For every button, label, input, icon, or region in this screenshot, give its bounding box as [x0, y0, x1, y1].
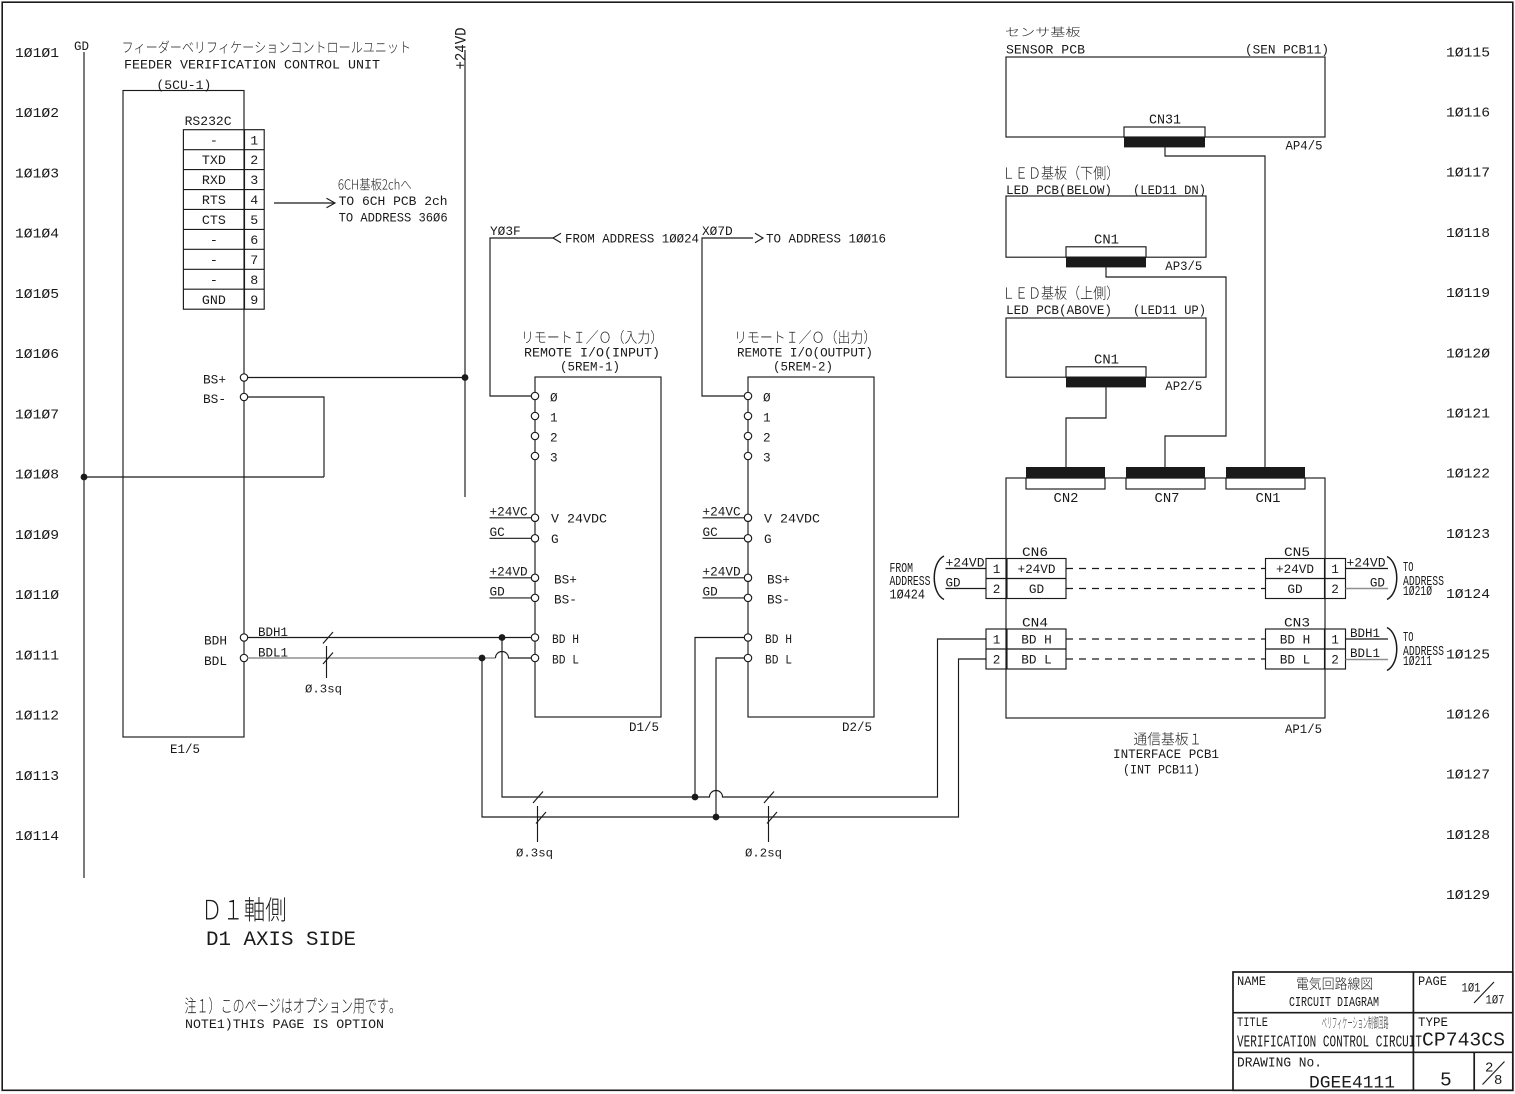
svg-text:1Ø424: 1Ø424	[890, 588, 926, 604]
rev fraction slash	[1483, 1062, 1505, 1085]
svg-text:(SEN PCB11): (SEN PCB11)	[1245, 43, 1329, 58]
junction REM2 BDH / bus	[692, 794, 699, 801]
svg-text:BS+: BS+	[554, 573, 577, 588]
block (5REM-1)	[535, 377, 661, 717]
svg-text:RXD: RXD	[202, 173, 226, 188]
svg-text:-: -	[210, 133, 218, 148]
svg-text:2: 2	[1331, 582, 1339, 597]
svg-text:Ø: Ø	[550, 390, 558, 405]
svg-text:1Ø1Ø9: 1Ø1Ø9	[15, 528, 59, 544]
svg-text:-: -	[210, 273, 218, 288]
connector CN1 housing (AP2)	[1066, 367, 1146, 377]
svg-text:1Ø122: 1Ø122	[1446, 467, 1490, 483]
junction BDH1	[499, 634, 506, 641]
svg-text:1Ø125: 1Ø125	[1446, 647, 1490, 663]
svg-text:+24VD: +24VD	[453, 28, 471, 70]
svg-text:1Ø121: 1Ø121	[1446, 407, 1490, 423]
wire BDL1 gray segment	[247, 657, 495, 659]
junction REM2 BDL / bus	[713, 814, 720, 821]
svg-text:2: 2	[763, 430, 771, 445]
svg-text:CN31: CN31	[1149, 113, 1181, 129]
svg-text:SENSOR PCB: SENSOR PCB	[1006, 43, 1085, 58]
block interface PCB AP1	[1006, 478, 1325, 718]
wire +24VD vertical rail	[464, 50, 466, 497]
svg-text:TITLE: TITLE	[1237, 1016, 1268, 1030]
svg-text:7: 7	[250, 253, 258, 268]
svg-text:+24VD: +24VD	[1276, 562, 1314, 577]
wire BS- to GD rail	[84, 476, 324, 478]
wire Y03F to REM1 pin0	[490, 238, 553, 396]
label interface PCB (JP)	[1134, 732, 1199, 745]
svg-text:D1 AXIS SIDE: D1 AXIS SIDE	[206, 929, 356, 952]
connector CN6 pin table	[986, 559, 1066, 599]
svg-text:1Ø111: 1Ø111	[15, 648, 59, 664]
gauge slash bus BDH 0.2	[764, 792, 774, 804]
svg-text:GD: GD	[1287, 582, 1302, 597]
svg-text:2: 2	[1331, 653, 1339, 668]
connector CN7 housing	[1126, 478, 1205, 489]
svg-text:1: 1	[993, 562, 1001, 577]
svg-text:3: 3	[550, 450, 558, 465]
svg-text:1Ø118: 1Ø118	[1446, 226, 1490, 242]
svg-text:1: 1	[1331, 633, 1339, 648]
svg-text:1Ø1Ø1: 1Ø1Ø1	[15, 46, 59, 62]
svg-text:NOTE1)THIS PAGE IS OPTION: NOTE1)THIS PAGE IS OPTION	[185, 1017, 384, 1032]
svg-text:CP743CS: CP743CS	[1422, 1030, 1505, 1052]
svg-text:CN2: CN2	[1054, 491, 1079, 507]
svg-text:BD L: BD L	[1021, 653, 1051, 668]
svg-text:Ø: Ø	[763, 390, 771, 405]
arrowhead to 6CH PCB	[327, 198, 336, 208]
gauge slash bus BDL 0.2	[767, 812, 777, 824]
svg-text:1Ø12Ø: 1Ø12Ø	[1446, 346, 1490, 362]
label feeder verification control unit (JP)	[123, 41, 409, 54]
connector RS232C pin table	[183, 130, 264, 310]
svg-text:V 24VDC: V 24VDC	[551, 512, 607, 527]
svg-text:TO 6CH PCB 2ch: TO 6CH PCB 2ch	[339, 194, 448, 209]
junction BDL1	[479, 655, 486, 662]
wire stub +24VD	[703, 577, 745, 579]
svg-text:BS+: BS+	[203, 373, 226, 388]
svg-text:AP2/5: AP2/5	[1165, 379, 1202, 394]
power pins BS+/BS-	[531, 574, 538, 581]
wire BDL1 with hop over BDH riser	[496, 652, 532, 659]
power pins V/G	[744, 514, 751, 521]
gauge leader 0.2sq	[768, 806, 770, 842]
svg-text:1: 1	[250, 133, 258, 148]
svg-text:TO ADDRESS 1ØØ16: TO ADDRESS 1ØØ16	[766, 232, 886, 247]
connector CN1 body (interface)	[1226, 467, 1305, 478]
svg-text:RS232C: RS232C	[185, 114, 232, 129]
svg-text:GND: GND	[202, 293, 226, 308]
svg-text:1Ø114: 1Ø114	[15, 829, 59, 845]
connector CN7 body	[1126, 467, 1205, 478]
svg-text:CN6: CN6	[1022, 545, 1048, 560]
svg-text:1Ø11Ø: 1Ø11Ø	[15, 588, 59, 604]
svg-text:1Ø7: 1Ø7	[1486, 993, 1505, 1007]
wire X07D from REM2 pin0	[702, 238, 753, 396]
svg-text:1Ø123: 1Ø123	[1446, 527, 1490, 543]
svg-text:BD L: BD L	[765, 653, 792, 668]
terminal BDL on 5CU-1	[240, 654, 247, 661]
svg-text:Ø.2sq: Ø.2sq	[745, 847, 782, 861]
svg-text:XØ7D: XØ7D	[702, 224, 733, 239]
title circuit diagram (JP)	[1297, 977, 1372, 990]
svg-text:TYPE: TYPE	[1418, 1016, 1448, 1030]
wire CN31 to CN1	[1165, 147, 1265, 467]
svg-text:1Ø116: 1Ø116	[1446, 106, 1490, 122]
wire BDH bus to CN4 pin1 with hop	[502, 638, 986, 798]
svg-text:1Ø127: 1Ø127	[1446, 768, 1490, 784]
svg-text:VERIFICATION CONTROL CIRCUIT: VERIFICATION CONTROL CIRCUIT	[1237, 1033, 1422, 1052]
svg-text:(5REM-1): (5REM-1)	[560, 360, 620, 375]
label remote I/O (JP)	[524, 330, 654, 344]
svg-text:1: 1	[993, 633, 1001, 648]
wire stub +24VD	[490, 577, 532, 579]
connector CN31 body	[1124, 137, 1205, 147]
wire stub +24VD CN6	[946, 568, 987, 570]
gauge slash bus BDH	[533, 792, 543, 804]
svg-text:BS-: BS-	[203, 392, 226, 407]
svg-text:BD H: BD H	[765, 632, 792, 647]
svg-text:BD H: BD H	[1021, 633, 1051, 648]
connector CN1 body (AP2)	[1066, 377, 1146, 387]
svg-text:1Ø129: 1Ø129	[1446, 888, 1490, 904]
svg-text:CIRCUIT DIAGRAM: CIRCUIT DIAGRAM	[1289, 996, 1379, 1011]
svg-text:BS-: BS-	[554, 593, 577, 608]
svg-text:8: 8	[1494, 1073, 1502, 1089]
wire dashed BD L CN4-CN3	[1066, 658, 1266, 660]
svg-text:AP4/5: AP4/5	[1286, 139, 1323, 154]
wire stub GD CN6	[946, 588, 987, 590]
block sensor PCB SEN PCB11	[1006, 57, 1325, 137]
svg-text:REMOTE I/O(OUTPUT): REMOTE I/O(OUTPUT)	[737, 346, 873, 361]
svg-text:D1/5: D1/5	[629, 720, 659, 735]
gauge leader 0.3sq	[326, 646, 328, 678]
connector CN2 body	[1026, 467, 1105, 478]
svg-text:NAME: NAME	[1237, 975, 1266, 989]
page fraction slash	[1474, 982, 1494, 1003]
svg-text:-: -	[210, 233, 218, 248]
wire stub GD	[490, 597, 532, 599]
svg-text:2: 2	[993, 582, 1001, 597]
connector CN4 pin table	[986, 629, 1066, 669]
svg-text:1Ø1Ø8: 1Ø1Ø8	[15, 468, 59, 484]
svg-text:CN1: CN1	[1094, 233, 1119, 249]
brace to address 10211	[1387, 628, 1397, 671]
arrowhead from address 10024	[553, 233, 561, 242]
connector CN31 housing	[1124, 127, 1205, 137]
wire REM2 BD H down	[695, 638, 745, 798]
svg-text:2: 2	[550, 430, 558, 445]
svg-text:8: 8	[250, 273, 258, 288]
gauge leader 0.3sq bus	[537, 806, 539, 842]
svg-text:1Ø1Ø4: 1Ø1Ø4	[15, 227, 59, 243]
gauge slash bus BDL	[536, 812, 546, 824]
connector CN2 housing	[1026, 478, 1105, 489]
wire stub GD CN5	[1346, 588, 1389, 590]
svg-text:BDH: BDH	[204, 634, 227, 649]
svg-text:Ø.3sq: Ø.3sq	[305, 683, 342, 697]
svg-text:CN7: CN7	[1155, 491, 1180, 507]
svg-text:FROM ADDRESS 1ØØ24: FROM ADDRESS 1ØØ24	[565, 232, 699, 247]
connector CN5 pin table	[1266, 559, 1346, 599]
svg-text:1Ø1: 1Ø1	[1462, 982, 1481, 996]
svg-text:1Ø1Ø7: 1Ø1Ø7	[15, 407, 59, 423]
label LED PCB below (JP)	[1006, 165, 1110, 180]
gauge slash BDH1	[323, 632, 333, 644]
brace to address 10210	[1387, 557, 1397, 600]
svg-text:CN5: CN5	[1284, 545, 1310, 560]
svg-text:1: 1	[550, 410, 558, 425]
wire arrow to 6CH PCB	[274, 202, 334, 204]
svg-text:BD L: BD L	[1280, 653, 1310, 668]
svg-text:AP1/5: AP1/5	[1285, 722, 1322, 737]
svg-text:1Ø1Ø5: 1Ø1Ø5	[15, 287, 59, 303]
svg-text:LED PCB(ABOVE): LED PCB(ABOVE)	[1006, 303, 1112, 318]
terminal BS- on 5CU-1	[240, 393, 247, 400]
svg-text:E1/5: E1/5	[170, 742, 200, 757]
svg-text:GD: GD	[74, 40, 89, 54]
wire REM2 BD L down	[716, 658, 745, 817]
svg-text:BD H: BD H	[1280, 633, 1310, 648]
svg-text:1Ø1Ø6: 1Ø1Ø6	[15, 347, 59, 363]
label D1 axis side (JP)	[206, 897, 285, 921]
svg-text:YØ3F: YØ3F	[490, 224, 521, 239]
wire BDL bus to CN4 pin2	[482, 658, 986, 817]
wire dashed +24VD CN6-CN5	[1066, 568, 1266, 570]
svg-text:G: G	[764, 532, 772, 547]
wire dashed GD CN6-CN5	[1066, 588, 1266, 590]
wire BS- down	[247, 397, 324, 477]
svg-text:1Ø1Ø2: 1Ø1Ø2	[15, 106, 59, 122]
svg-text:5: 5	[1440, 1070, 1452, 1092]
pins BD H / BD L	[744, 634, 751, 641]
svg-text:1Ø119: 1Ø119	[1446, 286, 1490, 302]
svg-text:D2/5: D2/5	[842, 720, 872, 735]
svg-text:CN3: CN3	[1284, 616, 1310, 631]
wire stub +24VC	[703, 517, 745, 519]
block LED PCB below	[1006, 196, 1206, 257]
svg-text:3: 3	[763, 450, 771, 465]
svg-text:INTERFACE PCB1: INTERFACE PCB1	[1113, 747, 1219, 762]
svg-text:PAGE: PAGE	[1418, 975, 1447, 989]
connector CN3 pin table	[1266, 629, 1346, 669]
svg-text:CN1: CN1	[1256, 491, 1281, 507]
svg-text:CN4: CN4	[1022, 616, 1048, 631]
note this page is option (JP)	[185, 997, 393, 1014]
svg-text:3: 3	[250, 173, 258, 188]
svg-text:1Ø211: 1Ø211	[1403, 654, 1432, 670]
svg-text:1Ø113: 1Ø113	[15, 769, 59, 785]
svg-text:2: 2	[250, 153, 258, 168]
svg-text:RTS: RTS	[202, 193, 226, 208]
svg-text:1Ø124: 1Ø124	[1446, 587, 1490, 603]
arrowhead to address 10016	[755, 233, 763, 242]
power pins BS+/BS-	[744, 574, 751, 581]
svg-text:CN1: CN1	[1094, 353, 1119, 369]
connector CN1 body (AP3)	[1066, 257, 1146, 267]
wire AP2 CN1 to CN2	[1066, 387, 1106, 467]
svg-text:-: -	[210, 253, 218, 268]
svg-text:5: 5	[250, 213, 258, 228]
svg-text:1: 1	[763, 410, 771, 425]
svg-text:TXD: TXD	[202, 153, 226, 168]
wire stub GC	[490, 537, 532, 539]
block LED PCB above	[1006, 318, 1206, 377]
svg-text:G: G	[551, 532, 559, 547]
svg-text:9: 9	[250, 293, 258, 308]
terminal BDH on 5CU-1	[240, 634, 247, 641]
wire stub +24VD CN5	[1346, 568, 1389, 570]
label sensor PCB (JP)	[1006, 27, 1080, 37]
svg-text:BS-: BS-	[767, 593, 790, 608]
svg-text:DRAWING No.: DRAWING No.	[1237, 1057, 1322, 1072]
control unit 5CU-1 box	[123, 91, 244, 738]
svg-text:CTS: CTS	[202, 213, 226, 228]
input pins 0-3	[744, 392, 751, 399]
pins BD H / BD L	[531, 634, 538, 641]
power pins V/G	[531, 514, 538, 521]
wire AP3 CN1 to CN7	[1106, 267, 1226, 467]
label remote I/O (JP)	[737, 330, 867, 344]
svg-text:1Ø21Ø: 1Ø21Ø	[1403, 584, 1432, 600]
svg-text:(INT PCB11): (INT PCB11)	[1123, 763, 1200, 778]
terminal BS+ on 5CU-1	[240, 374, 247, 381]
svg-text:BD L: BD L	[552, 653, 579, 668]
svg-text:1Ø126: 1Ø126	[1446, 708, 1490, 724]
svg-text:(5REM-2): (5REM-2)	[773, 360, 833, 375]
svg-text:BS+: BS+	[767, 573, 790, 588]
connector CN1 housing (AP3)	[1066, 247, 1146, 257]
svg-text:AP3/5: AP3/5	[1165, 259, 1202, 274]
svg-text:1Ø112: 1Ø112	[15, 709, 59, 725]
wire stub GC	[703, 537, 745, 539]
junction BS-/GD	[81, 474, 88, 481]
wire BS+ to +24VD rail	[247, 377, 465, 379]
svg-text:1Ø115: 1Ø115	[1446, 45, 1490, 61]
wire stub +24VC	[490, 517, 532, 519]
wire dashed BD H CN4-CN3	[1066, 638, 1266, 640]
title block frame	[1233, 972, 1513, 1090]
svg-text:BD H: BD H	[552, 632, 579, 647]
wire stub GD	[703, 597, 745, 599]
svg-text:1Ø117: 1Ø117	[1446, 166, 1490, 182]
svg-text:BDL: BDL	[204, 654, 227, 669]
gauge slash BDL1	[323, 653, 333, 665]
svg-text:+24VD: +24VD	[1017, 562, 1055, 577]
svg-text:1Ø128: 1Ø128	[1446, 828, 1490, 844]
wire stub BDH1 CN3	[1346, 638, 1389, 640]
wire stub BDL1 CN3	[1346, 659, 1389, 661]
connector CN1 housing (interface)	[1226, 478, 1305, 489]
svg-text:REMOTE I/O(INPUT): REMOTE I/O(INPUT)	[524, 346, 660, 361]
wire BDH1	[247, 637, 531, 639]
label LED PCB above (JP)	[1006, 285, 1110, 300]
label 6CH PCB 2ch (JP)	[339, 178, 411, 191]
block (5REM-2)	[748, 377, 874, 717]
wire GD vertical rail	[83, 52, 85, 878]
svg-text:TO ADDRESS 36Ø6: TO ADDRESS 36Ø6	[339, 210, 448, 225]
input pins 0-3	[531, 392, 538, 399]
svg-text:GD: GD	[703, 585, 718, 600]
svg-text:6: 6	[250, 233, 258, 248]
svg-text:V 24VDC: V 24VDC	[764, 512, 820, 527]
svg-text:DGEE4111: DGEE4111	[1309, 1074, 1395, 1094]
junction +24VD/BS+	[462, 374, 469, 381]
svg-text:FEEDER VERIFICATION CONTROL UN: FEEDER VERIFICATION CONTROL UNIT	[124, 58, 380, 73]
svg-text:1Ø1Ø3: 1Ø1Ø3	[15, 166, 59, 182]
brace from address 10424	[934, 556, 944, 600]
svg-text:(LED11 UP): (LED11 UP)	[1133, 303, 1206, 318]
svg-text:2: 2	[993, 653, 1001, 668]
svg-text:GD: GD	[1029, 582, 1044, 597]
svg-text:Ø.3sq: Ø.3sq	[516, 847, 553, 861]
title verification control circuit (JP)	[1322, 1016, 1388, 1029]
svg-text:4: 4	[250, 193, 258, 208]
svg-text:GD: GD	[490, 585, 505, 600]
svg-text:1: 1	[1331, 562, 1339, 577]
